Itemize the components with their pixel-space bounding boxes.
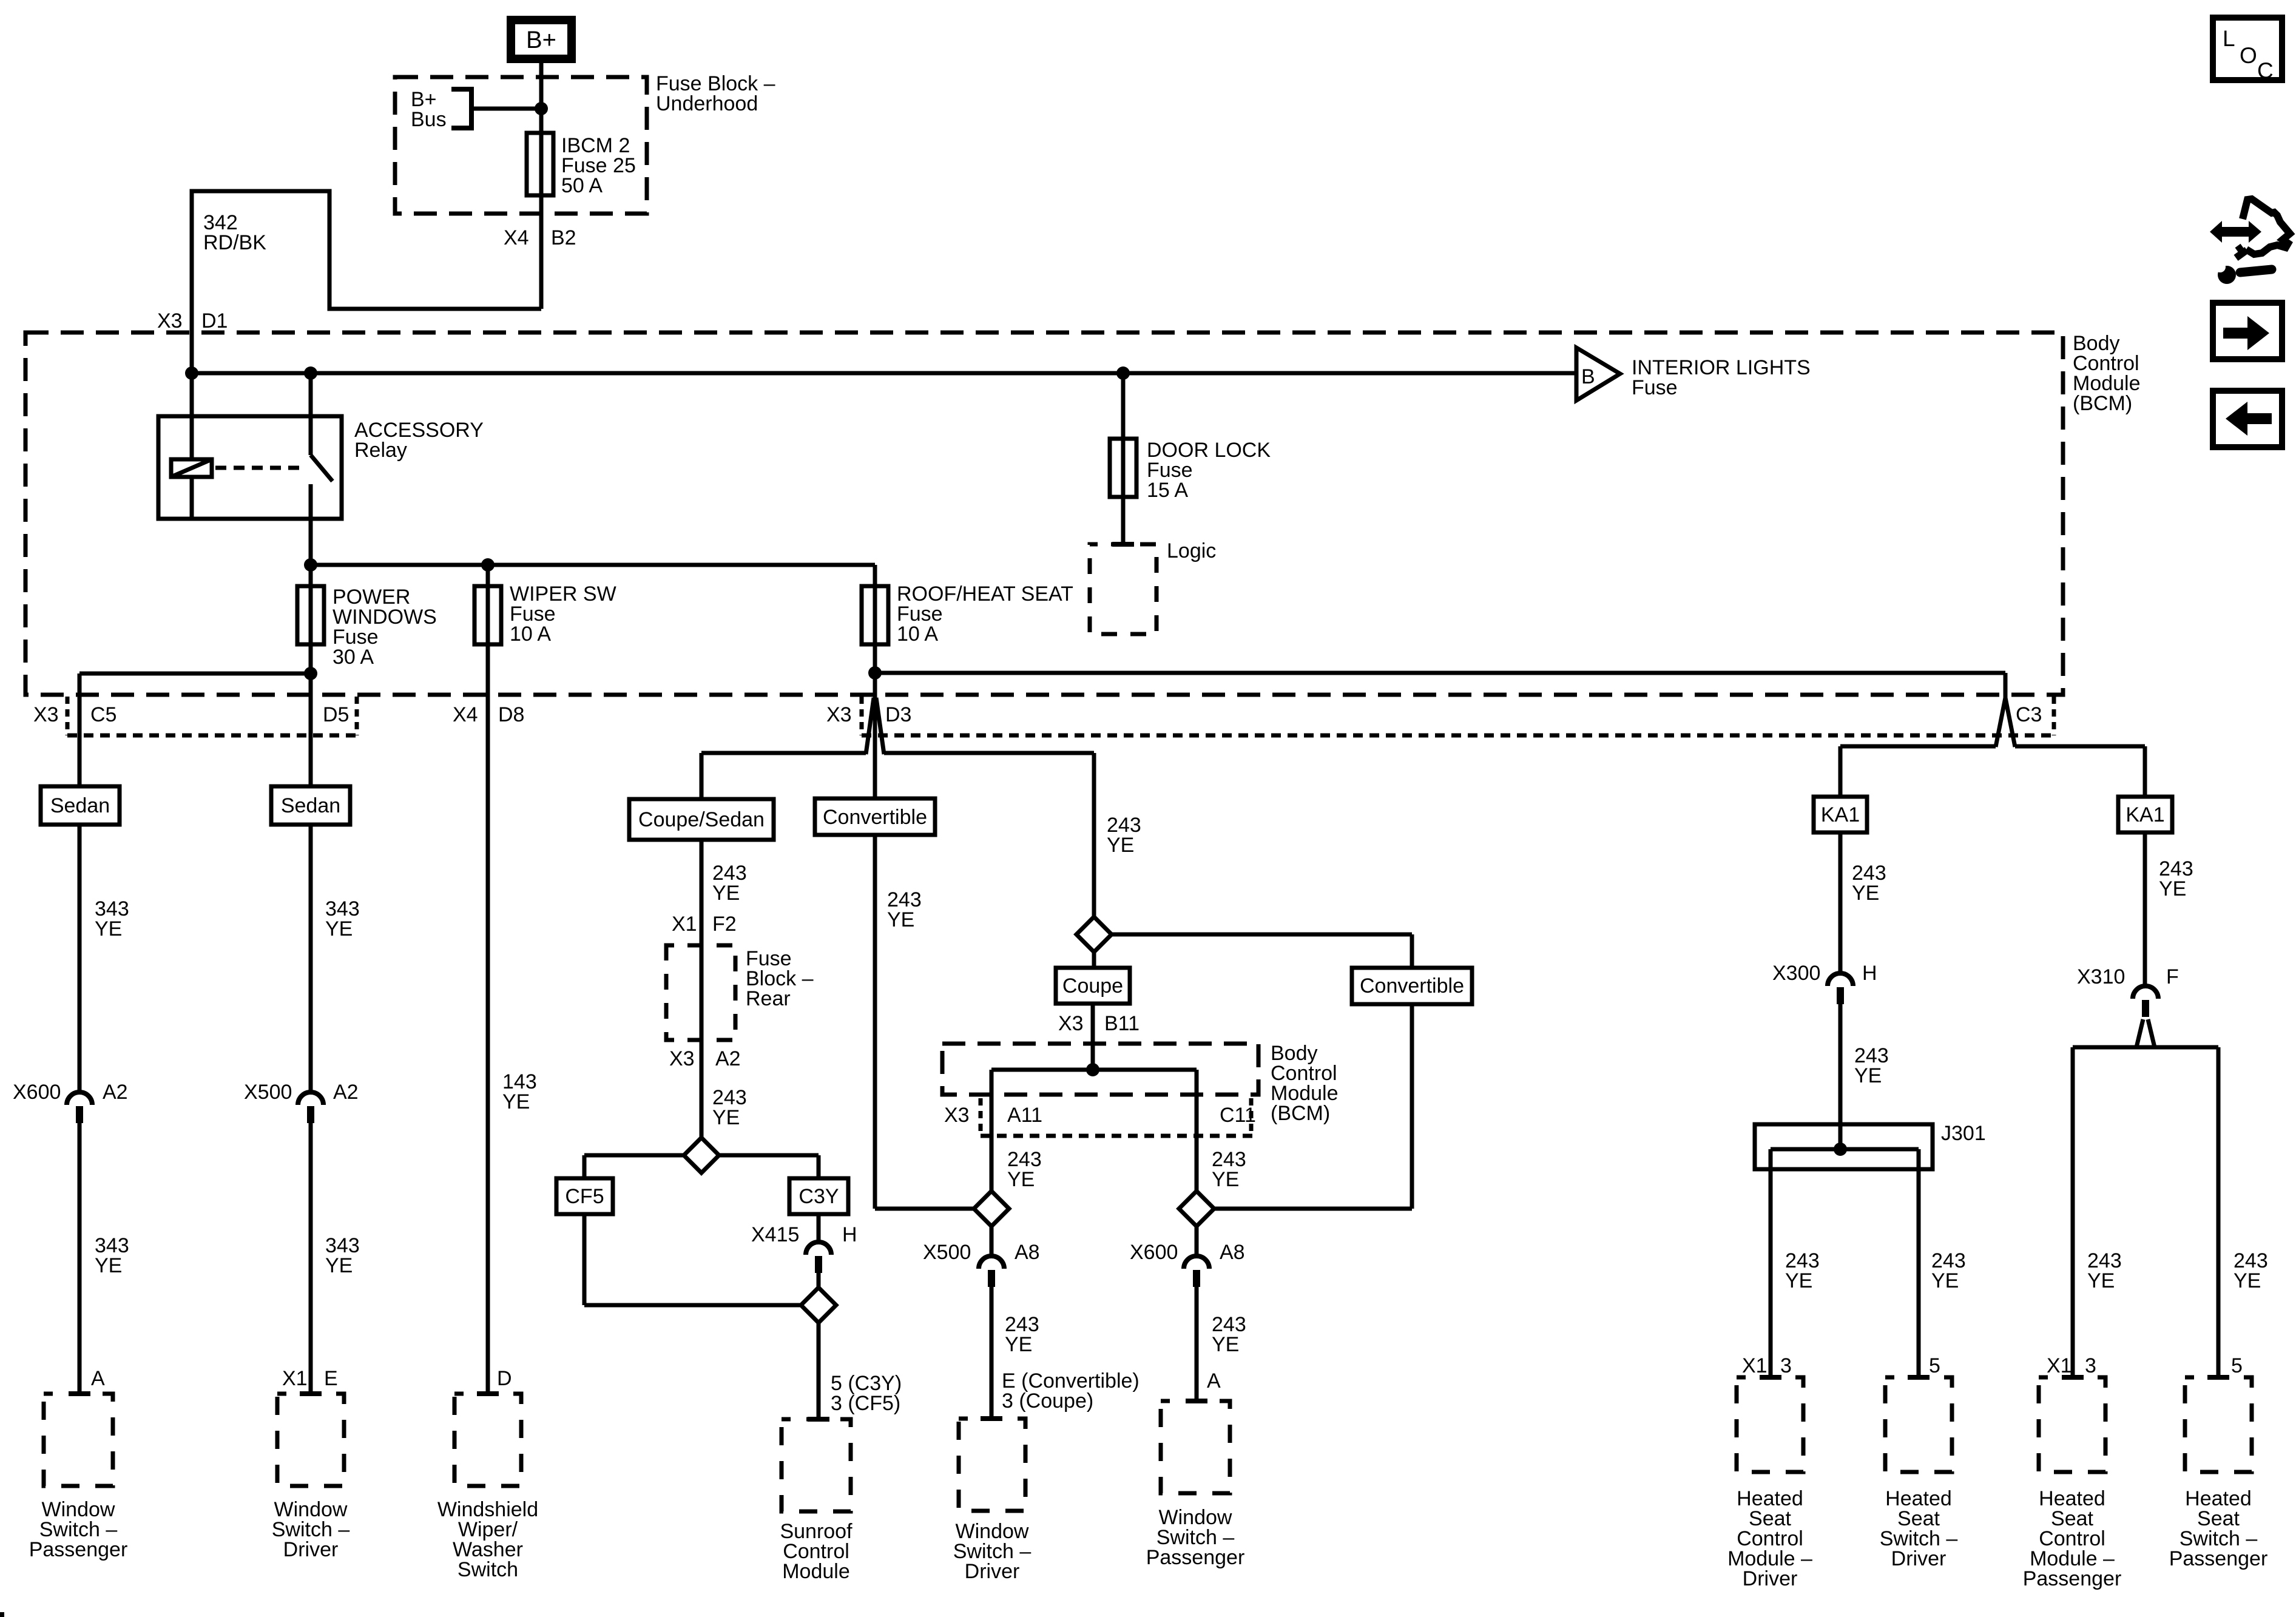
fuse block - underhood (dashed box) [395, 77, 647, 214]
svg-text:KA1: KA1 [2125, 803, 2164, 826]
svg-text:A: A [91, 1367, 105, 1390]
label Window Switch - Driver 2 [953, 1520, 1032, 1583]
svg-text:X600: X600 [13, 1081, 61, 1104]
svg-text:X600: X600 [1130, 1241, 1178, 1264]
wire D3 with connector arrow [866, 666, 884, 798]
wire 343 YE passenger [79, 825, 129, 1092]
svg-text:A8: A8 [1220, 1241, 1245, 1264]
svg-text:Bus: Bus [411, 108, 447, 131]
svg-text:X500: X500 [923, 1241, 971, 1264]
label Body Control Module (BCM) 2 [1271, 1042, 1339, 1125]
pin labels X3 A2 [669, 1047, 741, 1070]
svg-text:30 A: 30 A [333, 646, 374, 669]
wire 243 YE to window switch passenger 2 [1186, 1287, 1246, 1401]
svg-text:Passenger: Passenger [29, 1538, 128, 1561]
svg-text:KA1: KA1 [1821, 803, 1860, 826]
svg-text:A: A [1207, 1369, 1221, 1393]
svg-text:YE: YE [1007, 1168, 1035, 1191]
wire C3 to KA1 branches [1840, 746, 2145, 797]
svg-text:A2: A2 [715, 1047, 741, 1070]
body control module BCM (2, dashed box) [942, 1044, 1258, 1095]
wire 243 YE to heated seat switch driver [1908, 1149, 1966, 1377]
wire 243 YE to heated seat control module passenger [2047, 1249, 2122, 1377]
svg-text:D8: D8 [498, 703, 524, 726]
logic block (dashed) [1090, 539, 1216, 634]
wire BCM to C3 [875, 673, 2015, 747]
heated seat switch - driver (dashed box) [1885, 1377, 1952, 1472]
pin labels X4 B2 [504, 226, 576, 249]
relay ACCESSORY [158, 373, 484, 565]
svg-text:X4: X4 [504, 226, 529, 249]
power terminal B+ [511, 20, 572, 59]
wire to sunroof control module [808, 1323, 902, 1419]
wire 342 RD/BK [192, 191, 541, 373]
svg-text:10 A: 10 A [897, 623, 938, 646]
fuse IBCM 2 Fuse 25 50 A [527, 133, 636, 197]
fuse ROOF/HEAT SEAT 10 A [862, 565, 1073, 673]
label Heated Seat Control Module - Driver [1727, 1487, 1812, 1590]
option box Sedan (passenger) [41, 786, 120, 825]
option box KA1 (driver) [1814, 797, 1867, 832]
icon harness routing with wrench [2210, 199, 2290, 284]
svg-text:X3: X3 [157, 309, 183, 333]
svg-text:D5: D5 [323, 703, 349, 726]
svg-text:YE: YE [502, 1090, 530, 1113]
svg-text:A2: A2 [333, 1081, 359, 1104]
svg-text:YE: YE [95, 917, 122, 940]
label Heated Seat Control Module - Passenger [2023, 1487, 2122, 1590]
svg-text:Sedan: Sedan [281, 794, 340, 817]
svg-text:15 A: 15 A [1147, 479, 1188, 502]
svg-text:Passenger: Passenger [1146, 1546, 1245, 1569]
connector X300 pin H [1772, 962, 1877, 1004]
svg-text:H: H [1862, 962, 1877, 985]
wire 243 YE to heated seat control module driver [1742, 1149, 1820, 1377]
splice diamond (sunroof) [801, 1273, 836, 1323]
wire 243 YE KA1 driver [1840, 832, 1886, 973]
window switch - passenger (2, dashed box) [1161, 1401, 1230, 1493]
wire 243 YE convertible [875, 835, 974, 1209]
svg-text:50 A: 50 A [561, 174, 603, 197]
wire 343 YE to window switch passenger [69, 1123, 129, 1394]
svg-text:YE: YE [95, 1254, 122, 1277]
svg-text:Fuse: Fuse [1632, 376, 1678, 399]
svg-text:H: H [842, 1223, 857, 1246]
splice diamond (sunroof feed) [684, 1138, 719, 1173]
fuse POWER WINDOWS 30 A [297, 565, 437, 786]
wire 243 YE to window switch driver 2 [981, 1287, 1140, 1419]
icon LOC box [2213, 18, 2282, 83]
wire fork to passenger modules [2073, 1019, 2218, 1377]
window switch - driver (dashed box) [277, 1394, 344, 1486]
svg-text:O: O [2240, 43, 2257, 68]
svg-text:D: D [497, 1367, 512, 1390]
svg-text:A8: A8 [1015, 1241, 1040, 1264]
svg-text:YE: YE [1931, 1269, 1959, 1292]
svg-text:Underhood: Underhood [656, 92, 758, 115]
svg-text:YE: YE [1212, 1333, 1239, 1356]
label Heated Seat Switch - Driver [1880, 1487, 1958, 1570]
connector X600 pin A2 [13, 1081, 128, 1123]
svg-text:D3: D3 [885, 703, 911, 726]
pin labels X3 D1 [157, 309, 228, 333]
fuse WIPER SW 10 A [474, 565, 616, 1394]
BCM internal bus [991, 1063, 1197, 1191]
option box Sedan (driver) [271, 786, 350, 825]
wire 243 YE to heated seat switch passenger [2207, 1249, 2268, 1377]
body control module BCM (dashed box) [25, 333, 2063, 695]
sunroof control module (dashed box) [782, 1419, 851, 1511]
svg-text:Logic: Logic [1167, 539, 1216, 562]
wire B11 into BCM [1091, 1004, 1095, 1070]
label Sunroof Control Module [780, 1520, 853, 1583]
heated seat switch - passenger (dashed box) [2185, 1377, 2252, 1472]
svg-text:X300: X300 [1772, 962, 1820, 985]
option box C3Y [789, 1178, 848, 1214]
wire D3 right branch 243 YE [884, 753, 1141, 917]
wire to C5 [79, 667, 317, 786]
page corner mark [0, 1612, 4, 1617]
label Windshield Wiper/Washer Switch [437, 1498, 538, 1581]
svg-text:X3: X3 [1058, 1012, 1084, 1035]
window switch - driver (2, dashed box) [959, 1419, 1025, 1511]
option box Coupe [1056, 968, 1130, 1004]
option box CF5 [556, 1178, 613, 1214]
svg-text:Coupe/Sedan: Coupe/Sedan [638, 808, 765, 831]
label Fuse Block - Rear [746, 947, 814, 1010]
svg-text:Passenger: Passenger [2023, 1567, 2122, 1590]
svg-text:X3: X3 [669, 1047, 695, 1070]
wire 243 YE to splice [701, 1040, 747, 1138]
fuse block - rear (dashed box) [666, 945, 735, 1040]
svg-text:YE: YE [1854, 1064, 1882, 1087]
windshield wiper/washer switch (dashed box) [454, 1394, 521, 1486]
label Body Control Module (BCM) [2073, 332, 2141, 415]
svg-text:Relay: Relay [354, 439, 407, 462]
wire D3 left branch to Coupe/Sedan [701, 753, 866, 799]
svg-text:Rear: Rear [746, 987, 791, 1010]
label Heated Seat Switch - Passenger [2169, 1487, 2268, 1570]
svg-text:YE: YE [325, 1254, 353, 1277]
svg-text:A11: A11 [1007, 1104, 1042, 1127]
connector X3 pins A11 C11 (dashed strip) [944, 1098, 1258, 1136]
svg-text:A2: A2 [103, 1081, 128, 1104]
pin labels X1 F2 [672, 913, 737, 936]
wire to Convertible box [1112, 934, 1412, 968]
option box Coupe/Sedan [629, 799, 774, 840]
svg-text:CF5: CF5 [565, 1185, 604, 1208]
icon arrow right box [2213, 303, 2282, 359]
label Window Switch - Passenger 2 [1146, 1506, 1245, 1569]
svg-text:YE: YE [1785, 1269, 1812, 1292]
svg-text:5: 5 [2231, 1354, 2243, 1377]
connector X500 pin A8 [923, 1226, 1040, 1287]
connector X600 pin A8 [1130, 1226, 1245, 1287]
label Window Switch - Driver [272, 1498, 350, 1561]
svg-text:Switch: Switch [458, 1558, 518, 1581]
svg-text:X1: X1 [282, 1367, 308, 1390]
svg-text:C3: C3 [2016, 703, 2042, 726]
svg-text:C3Y: C3Y [799, 1185, 839, 1208]
label Window Switch - Passenger [29, 1498, 128, 1561]
svg-text:Module: Module [782, 1560, 850, 1583]
heated seat control module - passenger (dashed box) [2039, 1377, 2105, 1472]
svg-text:YE: YE [2087, 1269, 2115, 1292]
wire 243 YE KA1 passenger [2145, 832, 2193, 986]
svg-text:Coupe: Coupe [1062, 974, 1123, 998]
wire to C3Y [719, 1155, 819, 1178]
svg-text:Sedan: Sedan [50, 794, 110, 817]
svg-text:Driver: Driver [965, 1560, 1020, 1583]
svg-text:X500: X500 [244, 1081, 292, 1104]
svg-text:Driver: Driver [1891, 1547, 1947, 1570]
svg-text:YE: YE [1005, 1333, 1032, 1356]
svg-text:Convertible: Convertible [823, 806, 927, 829]
wire convertible 2 to splice [1214, 1004, 1412, 1209]
wire 343 YE driver [311, 825, 360, 1092]
wire to Coupe box [1092, 952, 1096, 968]
svg-text:X1: X1 [672, 913, 697, 936]
svg-text:YE: YE [712, 882, 740, 905]
wire to CF5 [584, 1155, 684, 1178]
svg-text:X4: X4 [453, 703, 478, 726]
wire 243 YE C11 [1212, 1148, 1246, 1191]
splice diamond (coupe feed) [1076, 917, 1112, 952]
splice pack J301 [1755, 1122, 1986, 1169]
wire CF5 to splice [584, 1214, 801, 1305]
svg-text:YE: YE [887, 908, 914, 931]
splice diamond (driver window) [974, 1191, 1009, 1226]
wire 243 YE A11 [1007, 1148, 1042, 1191]
svg-text:X310: X310 [2077, 965, 2125, 988]
splice diamond (passenger window) [1179, 1191, 1214, 1226]
pin labels X3 B11 [1058, 1012, 1140, 1035]
connector X3 pins D3..C3 (dashed strip) [826, 697, 2054, 735]
svg-text:F2: F2 [712, 913, 737, 936]
svg-text:YE: YE [325, 917, 353, 940]
svg-text:C: C [2257, 58, 2274, 83]
svg-text:C11: C11 [1220, 1104, 1256, 1127]
svg-text:10 A: 10 A [510, 623, 551, 646]
svg-text:YE: YE [712, 1106, 740, 1129]
svg-text:J301: J301 [1941, 1122, 1986, 1145]
icon arrow left box [2213, 391, 2282, 447]
svg-text:Passenger: Passenger [2169, 1547, 2268, 1570]
svg-text:X3: X3 [826, 703, 852, 726]
bus wire D1 [185, 366, 1576, 380]
fuse DOOR LOCK 15 A [1110, 373, 1271, 546]
connector X3 pins C5 D5 (dashed strip) [33, 697, 357, 735]
svg-text:YE: YE [1852, 882, 1879, 905]
wire 143 YE [477, 1070, 537, 1394]
svg-text:X3: X3 [33, 703, 59, 726]
wire B+ to fuse [471, 63, 548, 309]
window switch - passenger (dashed box) [44, 1394, 113, 1486]
svg-text:3: 3 [1780, 1354, 1792, 1377]
connector X500 pin A2 [244, 1081, 359, 1123]
connector X310 pin F [2077, 965, 2179, 1017]
svg-text:Driver: Driver [1743, 1567, 1798, 1590]
svg-text:Convertible: Convertible [1360, 974, 1464, 998]
wire 243 YE coupe/sedan [701, 840, 747, 945]
option box Convertible [815, 798, 935, 835]
node B+ Bus [411, 88, 471, 131]
svg-text:3 (Coupe): 3 (Coupe) [1002, 1389, 1093, 1413]
svg-text:YE: YE [1107, 834, 1134, 857]
svg-text:X1: X1 [2047, 1354, 2072, 1377]
option box KA1 (passenger) [2118, 797, 2172, 832]
svg-text:D1: D1 [201, 309, 228, 333]
svg-text:B2: B2 [551, 226, 576, 249]
svg-text:E: E [324, 1367, 338, 1390]
svg-text:YE: YE [2159, 877, 2186, 900]
wire 243 YE to J301 [1840, 1004, 1889, 1149]
fuse INTERIOR LIGHTS (triangle B) [1576, 348, 1811, 400]
label Fuse Block - Underhood [656, 72, 775, 115]
heated seat control module - driver (dashed box) [1737, 1377, 1803, 1472]
wire 343 YE to window switch driver [282, 1123, 360, 1394]
svg-text:B: B [1581, 365, 1595, 388]
connector X415 pin H [751, 1214, 857, 1273]
svg-text:3 (CF5): 3 (CF5) [831, 1392, 900, 1415]
svg-text:C5: C5 [90, 703, 116, 726]
svg-text:X415: X415 [751, 1223, 799, 1246]
svg-text:X3: X3 [944, 1104, 970, 1127]
svg-text:YE: YE [1212, 1168, 1239, 1191]
svg-text:B+: B+ [526, 27, 556, 53]
svg-text:F: F [2166, 965, 2179, 988]
svg-text:3: 3 [2085, 1354, 2096, 1377]
svg-text:RD/BK: RD/BK [203, 231, 266, 254]
svg-text:5: 5 [1929, 1354, 1940, 1377]
svg-text:X1: X1 [1742, 1354, 1768, 1377]
svg-text:(BCM): (BCM) [2073, 392, 2132, 415]
svg-text:L: L [2223, 26, 2235, 51]
wire relay output sub-bus [304, 558, 875, 572]
svg-text:Driver: Driver [283, 1538, 339, 1561]
option box Convertible (2) [1352, 968, 1472, 1004]
svg-text:B11: B11 [1104, 1012, 1140, 1035]
svg-text:(BCM): (BCM) [1271, 1102, 1330, 1125]
pin labels X4 D8 [453, 703, 524, 726]
svg-text:YE: YE [2234, 1269, 2261, 1292]
